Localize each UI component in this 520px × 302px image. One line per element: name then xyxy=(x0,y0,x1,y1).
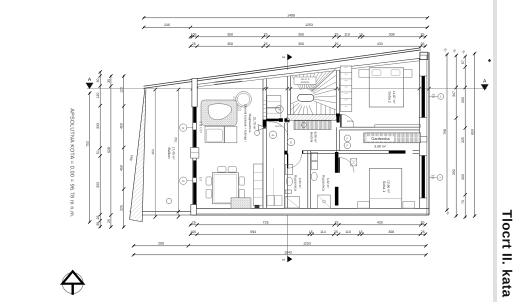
section marker A right xyxy=(481,79,489,91)
section line A-A horizontal xyxy=(87,88,487,90)
svg-text:200: 200 xyxy=(461,174,465,180)
svg-text:15: 15 xyxy=(309,230,313,234)
svg-text:3: 3 xyxy=(439,177,441,180)
door hodnik->bath 4.60 xyxy=(287,154,289,169)
svg-text:A: A xyxy=(483,79,487,85)
svg-text:M: M xyxy=(182,127,184,130)
svg-text:3,32 m²: 3,32 m² xyxy=(326,178,330,189)
svg-text:110: 110 xyxy=(345,230,351,234)
garderoba tag circles xyxy=(344,135,351,142)
svg-text:os: os xyxy=(282,55,286,59)
svg-text:26: 26 xyxy=(96,216,100,220)
svg-text:30: 30 xyxy=(96,79,100,83)
sink blob (white) xyxy=(208,104,231,120)
svg-text:17,45 m²: 17,45 m² xyxy=(171,146,175,160)
pillows xyxy=(372,70,381,76)
door into soba2 xyxy=(340,114,342,127)
svg-text:464: 464 xyxy=(151,149,155,155)
small roof opening marks xyxy=(214,79,242,82)
right wall xyxy=(428,52,430,215)
svg-text:25: 25 xyxy=(445,210,450,215)
balcony left slanted wall (wedge) xyxy=(130,89,146,222)
window tag 1 xyxy=(429,93,444,99)
svg-text:350: 350 xyxy=(227,33,233,37)
svg-text:308: 308 xyxy=(388,230,394,234)
svg-text:308: 308 xyxy=(389,33,395,37)
pillar top left xyxy=(192,78,197,107)
svg-text:25: 25 xyxy=(335,33,339,37)
garderoba wardrobe hatch xyxy=(364,133,421,143)
north arrow xyxy=(62,271,83,295)
svg-text:1253: 1253 xyxy=(305,23,313,27)
niche tall units xyxy=(267,96,281,108)
black partition bath3.32/soba1 xyxy=(335,152,339,173)
section axis os marker bottom xyxy=(282,216,292,263)
top dimension line row 3 xyxy=(191,36,426,38)
svg-text:225: 225 xyxy=(120,205,124,211)
svg-text:Soba 2: Soba 2 xyxy=(388,91,392,102)
door into soba1 xyxy=(338,158,340,173)
top dimension line row 1 total 1499 xyxy=(144,17,428,19)
hodnik-bath top wall xyxy=(302,150,336,152)
svg-text:90/205: 90/205 xyxy=(275,125,282,128)
svg-text:G: G xyxy=(290,141,292,144)
svg-text:25,78 m²: 25,78 m² xyxy=(253,117,257,130)
bottom dimension line row 2 xyxy=(191,233,426,235)
svg-text:25: 25 xyxy=(461,49,466,54)
svg-text:M: M xyxy=(182,180,184,183)
svg-text:25: 25 xyxy=(107,219,111,223)
svg-text:459: 459 xyxy=(120,165,124,171)
svg-text:25: 25 xyxy=(335,221,339,225)
right flight short vertical treads xyxy=(316,102,318,115)
soba2 bottom wall xyxy=(340,126,420,128)
living east wall cabinet strip xyxy=(254,164,263,206)
parapet bottom left corner xyxy=(191,205,197,216)
bath 4.60 shower xyxy=(285,197,300,209)
svg-text:90/205: 90/205 xyxy=(347,120,354,123)
svg-text:m: m xyxy=(278,109,280,112)
bottom dimension line row 1 xyxy=(191,224,426,226)
tag circles living xyxy=(269,131,277,139)
soba2/garderoba west wall xyxy=(335,71,337,114)
svg-text:6,96 m²: 6,96 m² xyxy=(314,132,318,143)
wall living/niche (A) xyxy=(262,79,264,208)
svg-text:752: 752 xyxy=(86,141,90,147)
svg-text:25: 25 xyxy=(334,230,338,234)
section marker A left xyxy=(86,77,94,89)
svg-text:P: P xyxy=(347,145,349,148)
svg-text:Soba 1: Soba 1 xyxy=(382,181,386,192)
round basin (double circle) xyxy=(236,92,252,108)
svg-text:51: 51 xyxy=(96,150,100,154)
svg-text:blagovaonica: blagovaonica xyxy=(248,114,252,133)
tag circles hodnik xyxy=(284,118,289,123)
svg-text:25: 25 xyxy=(264,33,268,37)
svg-text:120: 120 xyxy=(120,87,124,93)
svg-text:15: 15 xyxy=(359,230,363,234)
svg-text:67: 67 xyxy=(461,60,465,64)
svg-text:70: 70 xyxy=(200,131,203,134)
wall tags (circles) on glass wall xyxy=(180,124,187,131)
svg-text:292: 292 xyxy=(452,169,456,175)
svg-text:25: 25 xyxy=(452,48,457,53)
hodnik closet (vertical hatch) xyxy=(294,121,331,130)
svg-text:725: 725 xyxy=(263,221,269,225)
svg-text:333: 333 xyxy=(96,182,100,188)
svg-text:25: 25 xyxy=(421,221,425,225)
section axis os marker top xyxy=(282,54,292,70)
svg-text:246: 246 xyxy=(164,23,170,27)
balcony slab lines xyxy=(130,211,197,213)
svg-text:70: 70 xyxy=(461,200,465,204)
kitchen counter (stipple hatch) xyxy=(233,96,242,111)
left dimension column 752 xyxy=(89,93,91,222)
top dimension line row 2: 246 + 1253 xyxy=(144,26,428,28)
dining table xyxy=(212,173,238,204)
stair label box xyxy=(294,77,316,84)
svg-text:25: 25 xyxy=(192,42,196,46)
svg-text:1253: 1253 xyxy=(303,242,311,246)
right dimension column 659 xyxy=(474,54,476,217)
svg-text:659: 659 xyxy=(471,129,475,135)
svg-text:12,66 m²: 12,66 m² xyxy=(386,180,390,194)
garderoba label on white box xyxy=(367,136,394,141)
roller box between windows xyxy=(420,137,427,143)
svg-text:Garderoba: Garderoba xyxy=(371,137,390,141)
top-right corner cap xyxy=(420,52,428,59)
right dimension column 67/200/225/200/70 xyxy=(464,57,466,218)
staircase treads xyxy=(291,68,337,115)
svg-text:798: 798 xyxy=(443,129,447,135)
sideboard in soba2 xyxy=(375,125,421,128)
svg-text:350: 350 xyxy=(298,33,304,37)
bottom dimension line row 3: 290 + 1253 xyxy=(134,245,426,247)
svg-text:Dnevni boravak + kuhinja i: Dnevni boravak + kuhinja i xyxy=(244,104,248,142)
svg-text:433: 433 xyxy=(377,42,383,46)
svg-text:25: 25 xyxy=(192,221,196,225)
svg-text:664: 664 xyxy=(129,155,134,161)
right wall window soba2 (black) xyxy=(422,76,425,118)
right dimension column 347/292 xyxy=(455,56,457,217)
svg-text:594: 594 xyxy=(250,230,256,234)
svg-text:120: 120 xyxy=(96,93,100,99)
svg-text:105: 105 xyxy=(190,230,196,234)
svg-text:25: 25 xyxy=(335,42,339,46)
svg-text:Hodnik: Hodnik xyxy=(309,132,313,143)
nightstands soba1 xyxy=(358,202,370,209)
top dimension line row 4 xyxy=(191,45,426,47)
svg-text:Tlocrt II. kata: Tlocrt II. kata xyxy=(500,210,515,298)
shaft box with X xyxy=(351,159,357,166)
svg-text:36: 36 xyxy=(96,222,100,226)
right dimension column 798 xyxy=(446,55,448,211)
left dimension column 459+459 xyxy=(123,76,125,227)
balcony dim 702 xyxy=(177,90,179,218)
left dimension column segments xyxy=(99,72,101,227)
svg-text:105: 105 xyxy=(191,33,197,37)
svg-text:1543: 1543 xyxy=(284,251,292,255)
window tag 3 xyxy=(429,174,443,180)
radiator box on balcony xyxy=(191,148,199,159)
svg-text:433: 433 xyxy=(377,221,383,225)
svg-text:35: 35 xyxy=(107,79,111,83)
chairs xyxy=(206,177,212,185)
soba1 bed xyxy=(370,168,402,208)
wall-mounted symbol (cone) xyxy=(258,125,265,131)
niche lower boxes xyxy=(267,196,274,206)
left dimension column 628 xyxy=(110,76,112,227)
svg-text:350: 350 xyxy=(227,42,233,46)
svg-text:1: 1 xyxy=(440,96,442,99)
wall C between bathrooms xyxy=(307,151,309,209)
svg-text:225: 225 xyxy=(461,137,465,143)
bottom wall xyxy=(192,207,429,209)
svg-text:APSOLUTNA KOTA = 0.00 = 96.78: APSOLUTNA KOTA = 0.00 = 96.78 m n.m. xyxy=(69,108,75,217)
svg-text:14,87 m²: 14,87 m² xyxy=(392,90,396,104)
title separator rules xyxy=(493,0,495,302)
svg-text:347: 347 xyxy=(452,91,456,97)
bath 4.60 fixtures xyxy=(285,165,293,175)
bottom dimension line row 4 total 1543 xyxy=(134,254,426,256)
roof / top wall inner pair xyxy=(196,58,419,84)
svg-text:3,08 m²: 3,08 m² xyxy=(374,144,386,148)
wall B (hodnik/bath) vertical xyxy=(284,123,286,208)
svg-text:Zs: Zs xyxy=(272,134,276,137)
svg-text:Kupaonica: Kupaonica xyxy=(294,175,298,191)
svg-text:114: 114 xyxy=(320,230,326,234)
door living->hodnik (black leaf bar) xyxy=(266,119,279,121)
stair central rail xyxy=(298,94,314,101)
balcony inner dim 464 xyxy=(154,90,156,218)
stair walk line xyxy=(293,104,295,114)
roof / top wall outer pair (slanted) xyxy=(144,48,422,86)
svg-text:290: 290 xyxy=(158,242,164,246)
svg-text:25: 25 xyxy=(443,47,448,52)
svg-text:Kupaonica: Kupaonica xyxy=(322,175,326,191)
svg-text:350: 350 xyxy=(298,42,304,46)
svg-text:Stubište: Stubište xyxy=(301,81,310,84)
hatched wall band under stairs xyxy=(287,115,336,121)
svg-text:P: P xyxy=(347,138,349,141)
bath 3.32 fixtures xyxy=(311,153,318,161)
living room west glass wall xyxy=(192,84,194,212)
garderoba bottom wall + sliding door xyxy=(336,150,388,152)
svg-text:15: 15 xyxy=(359,33,363,37)
svg-text:Balkon: Balkon xyxy=(167,148,171,159)
bath 3.32 shower xyxy=(318,195,331,208)
svg-text:A: A xyxy=(88,77,92,83)
svg-text:os: os xyxy=(282,257,286,261)
svg-text:110: 110 xyxy=(344,33,350,37)
svg-text:333: 333 xyxy=(96,123,100,129)
stair left wall xyxy=(286,76,288,115)
svg-text:702: 702 xyxy=(174,137,178,143)
kitchen low cabinets xyxy=(205,126,224,142)
glass door black segments xyxy=(193,107,196,123)
svg-text:25: 25 xyxy=(264,42,268,46)
svg-text:1499: 1499 xyxy=(287,14,295,18)
soba2 bed xyxy=(369,68,404,107)
kitchen counter along bottom wall (hatch) xyxy=(231,198,251,209)
svg-text:4,60 m²: 4,60 m² xyxy=(298,178,302,189)
soba2 wardrobe column xyxy=(340,66,352,111)
right wall window soba1 (black) xyxy=(422,156,425,199)
svg-text:200: 200 xyxy=(461,97,465,103)
svg-text:628: 628 xyxy=(107,147,111,153)
small dark fixture bottom wall xyxy=(255,205,260,208)
svg-text:459: 459 xyxy=(120,123,124,129)
svg-text:25: 25 xyxy=(421,42,425,46)
svg-text:25: 25 xyxy=(421,230,425,234)
nightstands soba2 xyxy=(359,70,369,78)
svg-text:25: 25 xyxy=(421,33,425,37)
